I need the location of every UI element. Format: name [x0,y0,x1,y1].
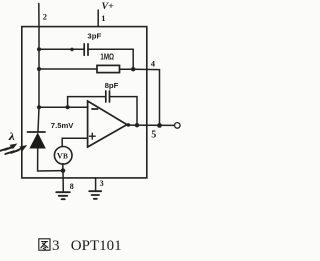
svg-text:VB: VB [57,152,68,161]
pin 2 lead (top) [38,4,40,27]
ground at pin 3 [89,191,101,199]
svg-text:5: 5 [151,130,156,141]
node 4 column wire [132,49,134,69]
bias source VB [54,147,72,165]
resistor R1 body [97,65,120,72]
IC package outline (OPT101) [22,27,147,178]
wire column to op-amp inverting input [39,106,88,108]
wire non-inverting input to bias source [62,138,87,146]
wire op-amp output to pin 5 terminal [126,124,175,126]
junction dot at R1 output node [131,67,135,71]
external wire pin 4 to output node [159,70,161,126]
VB bottom lead [62,164,64,171]
svg-text:OPT101: OPT101 [71,238,122,254]
inverting input marker - [92,108,98,110]
non-inverting input marker + [90,133,96,139]
pin 5 terminal (open circle) [175,123,181,129]
D1 anode wire to common node [38,148,63,171]
photodiode D1 cathode bar [28,131,46,133]
svg-text:3pF: 3pF [87,32,101,41]
svg-text:λ: λ [8,132,16,143]
R1 right lead [120,68,134,70]
photodiode D1 triangle [30,134,45,148]
junction dot (column / C1 wire) [37,47,41,51]
pin 4 lead exiting package [133,68,159,70]
svg-text:3: 3 [100,179,104,188]
pin 3 lead [95,178,97,191]
wire column to resistor R1 [39,68,97,70]
wire to feedback capacitor C1 [39,48,84,50]
light arrow 2 [5,146,26,154]
junction dot (column / R1 wire) [37,67,41,71]
svg-text:4: 4 [151,59,156,69]
wire common node through pin 8 to ground [62,171,64,192]
wire C1 to node 4 column [88,48,133,50]
ground at pin 8 [56,192,70,199]
svg-text:7.5mV: 7.5mV [51,121,75,130]
junction dot (inverting wire / C2 branch) [66,105,70,109]
junction dot at common node [61,168,66,173]
junction dot on C1 wire [70,48,74,52]
pin 1 lead [97,10,99,27]
svg-text:1MΩ: 1MΩ [100,52,114,61]
junction dot (column / inverting wire) [37,105,41,109]
svg-text:8pF: 8pF [105,81,119,90]
op-amp U1 [88,101,127,147]
inverting-node column wire (pin2 to photodiode) [38,27,39,132]
wire up to compensation capacitor C2 [68,97,106,108]
wire C2 to output node [110,97,138,126]
svg-text:8: 8 [70,182,74,191]
capacitor C2 8pF plates [106,91,110,102]
light arrow 1 [0,144,17,151]
junction dot (pin4 wire / output) [157,123,162,128]
svg-text:V+: V+ [102,2,114,12]
svg-text:1: 1 [101,13,105,23]
capacitor C1 3pF plates [84,44,88,55]
svg-text:2: 2 [43,12,47,22]
junction dot at op-amp output apex [127,123,131,127]
caption character 图 [39,239,50,250]
svg-text:3: 3 [52,238,60,254]
junction dot (C2 / output) [135,123,139,127]
